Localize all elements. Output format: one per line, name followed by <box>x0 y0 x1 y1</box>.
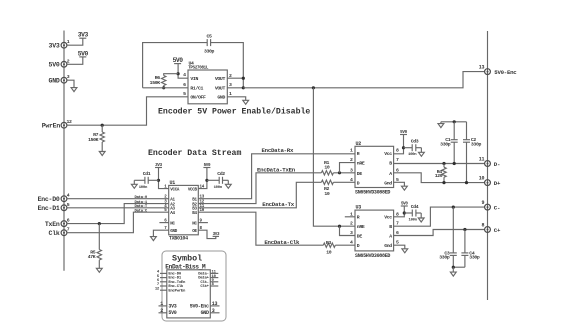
node junction Cd2 tap <box>205 179 208 182</box>
wire U3 Vcc to 5V0 <box>394 206 405 217</box>
wire TxEn to U1 A2 <box>67 204 169 224</box>
power symbol 3V3 above U1 <box>155 164 169 189</box>
pin 9 NC stub <box>198 222 208 224</box>
node junction C2 bottom <box>465 181 468 184</box>
wire U3 B pin 7 to C- <box>394 207 485 226</box>
svg-text:EncData-TxEn: EncData-TxEn <box>257 166 296 173</box>
svg-text:11: 11 <box>479 157 485 163</box>
svg-text:U1: U1 <box>170 180 176 186</box>
svg-text:Clk: Clk <box>49 230 60 237</box>
svg-text:DE: DE <box>357 171 363 177</box>
resistor R5 47K <box>88 224 102 269</box>
symbol pin texts left <box>168 273 186 317</box>
svg-text:Cd4: Cd4 <box>411 204 419 210</box>
node junction C1 top <box>453 120 456 123</box>
ground above C1/C2 <box>438 122 444 128</box>
ground at Cd2 <box>225 180 231 188</box>
wire Enc-D1 to U1 A3 <box>67 207 169 209</box>
wire U1 B1 to EncData-Rx <box>198 154 355 199</box>
wire U3 Gnd pin 5 to ground <box>394 245 405 249</box>
wire U3 DE bend <box>340 226 356 235</box>
svg-text:330p: 330p <box>204 49 215 55</box>
svg-text:100n: 100n <box>409 219 418 223</box>
svg-text:TXB0104: TXB0104 <box>169 236 188 242</box>
ground below U1 pin 7 <box>151 237 157 241</box>
left bus wire <box>63 31 65 271</box>
svg-text:VOUT: VOUT <box>215 76 226 82</box>
wire U1 B3 to EncData-Tx <box>198 182 321 208</box>
wire U4 VOUT pin 2 <box>227 77 243 79</box>
svg-text:10: 10 <box>324 164 330 170</box>
wire U2 B pin 7 to D- <box>394 163 485 165</box>
wire R3 to U3 D <box>335 244 355 246</box>
svg-text:PwrEn: PwrEn <box>42 122 61 129</box>
svg-text:330p: 330p <box>469 255 480 261</box>
ground at Cd1 <box>131 180 137 188</box>
capacitor Cd1 100n <box>134 171 158 190</box>
svg-text:EncData-Rx: EncData-Rx <box>262 147 294 154</box>
svg-text:OE: OE <box>192 230 197 234</box>
symbol box outer frame <box>162 251 226 321</box>
pin numbers U3 right <box>396 211 399 245</box>
symbol pin stubs right <box>210 271 219 314</box>
resistor R7 150K <box>88 125 104 151</box>
svg-text:5V0-Enc: 5V0-Enc <box>190 303 209 309</box>
resistor R3 10 <box>323 240 335 256</box>
wire R2 to U2 D <box>333 181 355 183</box>
svg-text:VOUT: VOUT <box>215 86 226 92</box>
node junction Cd4 tap <box>403 211 406 214</box>
node junction Cd1 tap <box>157 179 160 182</box>
svg-text:EncData-Tx: EncData-Tx <box>262 201 294 208</box>
svg-text:GND: GND <box>217 95 225 101</box>
wire drop to U3 nRE <box>313 88 355 226</box>
ground below R7 <box>99 152 105 156</box>
symbol pin stubs left <box>155 271 167 314</box>
wire U3 A pin 6 to C+ <box>394 230 485 236</box>
svg-text:5V0: 5V0 <box>401 203 408 207</box>
wire U1 pin 8 OE to 3V3 <box>198 230 216 238</box>
node junction TxEn/R5 <box>98 222 101 225</box>
wire C3/C4 gnd rail <box>453 266 465 268</box>
svg-text:U4: U4 <box>189 60 195 66</box>
pin 1 stub U3 R <box>345 216 355 218</box>
wire C1/C2 gnd rail <box>441 121 467 123</box>
node junction C3 bottom <box>452 266 455 269</box>
wire U2 Vcc to 5V0 <box>394 135 404 154</box>
svg-text:R3: R3 <box>326 240 332 246</box>
svg-text:R1/C1: R1/C1 <box>190 86 203 92</box>
connector pin 6 TxEn <box>45 218 70 228</box>
svg-text:A3: A3 <box>170 208 175 212</box>
power symbol 5V0 above U3 <box>401 203 409 207</box>
ground at U2 pin 5 <box>402 186 408 190</box>
svg-text:GND: GND <box>49 77 60 84</box>
svg-text:Data:C: Data:C <box>135 209 148 213</box>
power symbol 3V3 at OE <box>213 233 220 237</box>
symbol pin texts right <box>190 273 210 317</box>
svg-text:5V0: 5V0 <box>78 50 89 57</box>
svg-text:NC: NC <box>170 222 175 226</box>
wire 5V0-Enc run to right bus <box>243 72 484 88</box>
svg-text:Clk+: Clk+ <box>200 284 209 289</box>
svg-text:TxEn: TxEn <box>45 221 60 228</box>
svg-text:330p: 330p <box>439 255 450 261</box>
svg-text:D-: D- <box>494 161 500 168</box>
node junction C4 top <box>463 228 466 231</box>
svg-text:B1: B1 <box>192 198 197 202</box>
pin numbers U3 left <box>350 211 353 245</box>
svg-text:330p: 330p <box>440 141 451 147</box>
resistor R4 120 <box>435 164 446 183</box>
pin numbers U1 left <box>164 186 167 232</box>
node junction Cd3 tap <box>402 146 405 149</box>
power symbol 5V0 top-left <box>67 50 89 64</box>
svg-text:B3: B3 <box>192 208 197 212</box>
ground below C3/C4 <box>450 267 456 276</box>
svg-text:13: 13 <box>212 301 218 307</box>
node junction R6 bottom on R1/C1 wire <box>162 86 165 89</box>
svg-text:5V0: 5V0 <box>168 310 176 316</box>
svg-text:SN65HVD3088ED: SN65HVD3088ED <box>355 253 390 259</box>
connector pin 11 D- <box>479 157 500 168</box>
svg-text:Encoder Data Stream: Encoder Data Stream <box>148 148 241 158</box>
ground at Cd4 <box>418 213 424 222</box>
connector pin 3 GND <box>49 74 70 84</box>
node junction 5V0-Enc drop <box>312 86 315 89</box>
node junction U2 nRE/DE <box>338 171 341 174</box>
svg-text:150K: 150K <box>88 137 99 143</box>
svg-text:150K: 150K <box>150 80 161 86</box>
wire Enc-D0 to U1 A1 <box>67 198 169 200</box>
svg-text:U2: U2 <box>356 141 362 147</box>
svg-text:3V3: 3V3 <box>213 233 220 237</box>
svg-text:D+: D+ <box>494 180 501 187</box>
svg-text:100n: 100n <box>139 186 148 190</box>
svg-text:3V3: 3V3 <box>49 42 60 49</box>
ground at U3 pin 5 <box>402 249 408 253</box>
svg-text:B4: B4 <box>192 212 197 216</box>
svg-text:330p: 330p <box>471 141 482 147</box>
svg-text:Enc-D1: Enc-D1 <box>38 205 60 212</box>
svg-text:5V0: 5V0 <box>49 62 60 69</box>
connector pin 5 Enc-D1 <box>38 202 70 212</box>
connector pin 2 5V0 <box>49 58 70 68</box>
connector pin 13 5V0-Enc <box>479 64 517 76</box>
power symbol 3V3 top-left <box>67 32 89 46</box>
svg-text:ON/OFF: ON/OFF <box>190 95 206 101</box>
wire U1 B2 to EncData-TxEn <box>198 173 321 204</box>
svg-text:Gnd: Gnd <box>384 243 392 249</box>
svg-text:Vcc: Vcc <box>384 215 392 221</box>
svg-text:EncData-Clk: EncData-Clk <box>264 239 300 246</box>
power symbol 5V0 above U1 <box>198 164 211 189</box>
svg-text:A1: A1 <box>170 198 175 202</box>
svg-text:GND: GND <box>201 310 209 316</box>
svg-text:5V0: 5V0 <box>173 57 184 64</box>
svg-text:Data:T: Data:T <box>135 205 148 209</box>
svg-text:8: 8 <box>481 223 484 229</box>
svg-text:13: 13 <box>479 64 485 70</box>
right bus wire <box>487 31 489 300</box>
node junction 5V0/R6 top <box>177 72 180 75</box>
svg-text:100n: 100n <box>408 153 417 157</box>
resistor R2 10 <box>321 180 333 197</box>
wire U1 pin 7 GND to ground <box>153 230 168 236</box>
wire C5 to VOUT vertical <box>211 43 244 88</box>
svg-text:3: 3 <box>212 308 215 314</box>
svg-text:Cd2: Cd2 <box>217 171 225 177</box>
svg-text:VIN: VIN <box>190 76 198 82</box>
IC U1 TXB0104 body <box>169 180 199 242</box>
ground symbol at pin 3 <box>67 80 77 91</box>
wire U2 nRE bend <box>340 163 356 173</box>
svg-text:5V0: 5V0 <box>400 131 407 135</box>
IC U3 SN65HVD3088ED body <box>355 205 394 259</box>
svg-text:C-: C- <box>494 205 500 212</box>
pin numbers U2 right <box>396 148 399 183</box>
svg-text:Cd1: Cd1 <box>143 171 151 177</box>
svg-text:nRE: nRE <box>357 161 365 167</box>
capacitor Cd3 100n <box>404 139 422 158</box>
wire U4 VOUT pin 3 <box>227 87 243 89</box>
svg-text:10: 10 <box>479 176 485 182</box>
connector pin 1 3V3 <box>49 39 70 49</box>
node junction VOUT pin3 <box>242 86 245 89</box>
op-amp U4 TPS27081L body <box>183 60 232 104</box>
svg-text:3V3: 3V3 <box>168 303 176 309</box>
wire R1/C1 row to U4 pin 6 <box>143 87 188 89</box>
wire U4 GND pin 1 to ground <box>227 97 245 101</box>
svg-text:VCCB: VCCB <box>188 188 198 192</box>
connector pin 4 Enc-D0 <box>38 193 70 203</box>
node junction VOUT pin2 <box>242 77 245 80</box>
pin numbers U2 left <box>350 148 353 183</box>
svg-text:10: 10 <box>324 191 330 197</box>
ground below U4 pin 1 <box>243 100 249 104</box>
svg-text:Cd3: Cd3 <box>411 139 419 145</box>
wire U1 B4 to EncData-Clk <box>198 212 323 245</box>
svg-text:U3: U3 <box>356 205 362 211</box>
connector pin 8 C+ <box>481 223 500 234</box>
wire U2 Gnd pin 5 to ground <box>394 182 405 186</box>
svg-text:Symbol: Symbol <box>172 253 202 263</box>
connector pin 7 Clk <box>49 227 70 237</box>
pin 6 NC stub <box>159 222 168 224</box>
connector pin 12 PwrEn <box>42 119 72 129</box>
capacitor C1 330p <box>440 122 458 164</box>
capacitor C4 330p <box>461 230 479 268</box>
capacitor C3 330p <box>439 207 457 267</box>
ground at Cd3 <box>419 148 425 157</box>
pin numbers U1 right <box>200 186 205 232</box>
svg-text:Vcc: Vcc <box>384 151 392 157</box>
connector pin 9 C- <box>481 200 500 211</box>
svg-text:C5: C5 <box>206 33 212 39</box>
IC U2 SN65HVD3088ED body <box>355 141 394 196</box>
svg-text:120: 120 <box>435 173 443 179</box>
wire R1 to U2 DE <box>333 172 355 174</box>
node junction C1 bottom <box>453 162 456 165</box>
capacitor Cd4 100n <box>404 204 421 223</box>
wire C5 loop left vertical <box>143 43 208 88</box>
svg-text:47K: 47K <box>88 254 96 260</box>
svg-text:GND: GND <box>170 230 177 234</box>
svg-text:100n: 100n <box>214 186 223 190</box>
wire R6 top to 5V0 stem <box>164 74 178 76</box>
svg-text:5V0-Enc: 5V0-Enc <box>494 69 517 76</box>
svg-text:9: 9 <box>481 200 484 206</box>
svg-text:DE: DE <box>357 234 363 240</box>
symbol component body EnDat-Biss_M <box>167 270 211 318</box>
svg-text:10: 10 <box>326 250 332 256</box>
svg-text:12: 12 <box>67 119 73 125</box>
node junction U3 nRE/DE <box>338 225 341 228</box>
svg-text:A4: A4 <box>170 212 175 216</box>
power symbol 5V0 above U4 <box>173 57 188 78</box>
ground below R5 <box>96 268 102 272</box>
svg-text:EncPwrEn: EncPwrEn <box>168 289 186 293</box>
svg-text:VCCA: VCCA <box>170 188 180 192</box>
svg-text:Gnd: Gnd <box>384 180 392 186</box>
svg-text:Data:0: Data:0 <box>135 196 148 200</box>
capacitor C5 330p <box>204 33 215 54</box>
wire PwrEn to U4 ON/OFF <box>67 97 188 125</box>
svg-text:NC: NC <box>192 222 197 226</box>
svg-text:3V3: 3V3 <box>78 32 89 39</box>
svg-text:Enc-D0: Enc-D0 <box>38 196 60 203</box>
svg-text:SN65HVD3088ED: SN65HVD3088ED <box>355 190 390 196</box>
node junction R4 top <box>442 162 445 165</box>
node junction C3 top <box>452 206 455 209</box>
wire Clk to U1 A4 <box>67 212 169 233</box>
svg-text:C+: C+ <box>494 227 501 234</box>
svg-text:2: 2 <box>160 308 163 314</box>
svg-text:nRE: nRE <box>357 224 365 230</box>
svg-text:1: 1 <box>160 301 163 307</box>
capacitor Cd2 100n <box>207 171 228 190</box>
power symbol 5V0 above U2 <box>400 131 408 135</box>
svg-text:Encoder 5V Power Enable/Disabl: Encoder 5V Power Enable/Disable <box>158 106 310 116</box>
resistor R6 150K <box>150 75 166 88</box>
resistor R1 10 <box>321 160 333 175</box>
connector pin 10 D+ <box>479 176 501 187</box>
svg-text:TPS27081L: TPS27081L <box>188 67 209 71</box>
capacitor C2 330p <box>463 122 481 183</box>
node junction R4 bottom <box>442 181 445 184</box>
wire U2 A pin 6 to D+ <box>394 173 485 183</box>
node junction PwrEn/R7 <box>101 124 104 127</box>
